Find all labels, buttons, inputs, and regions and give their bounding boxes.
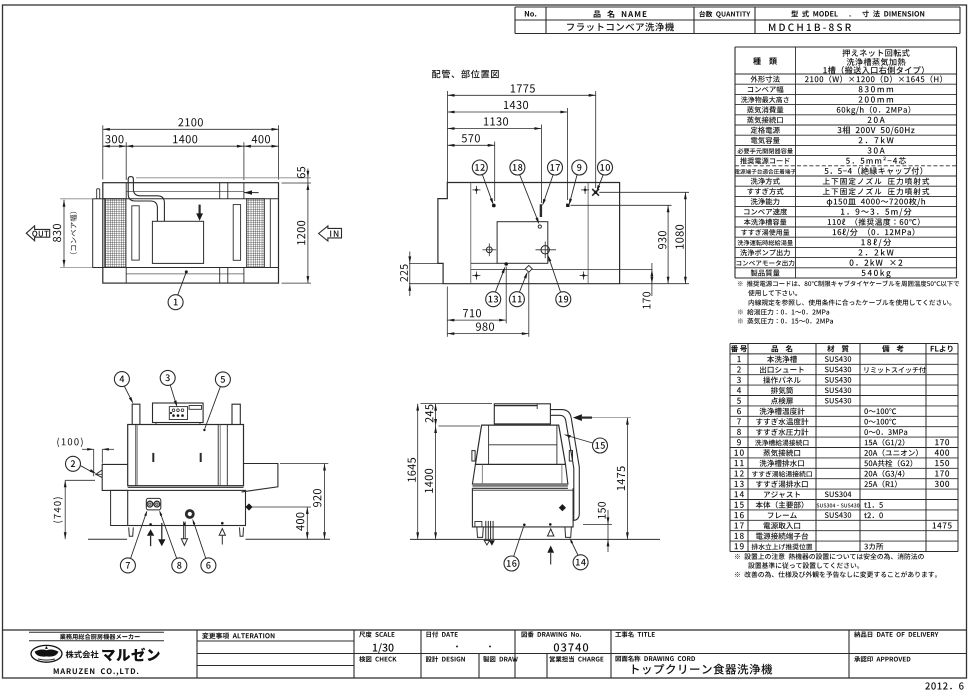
title cell bbox=[615, 631, 654, 637]
side supply arrow filled up bbox=[547, 546, 554, 553]
front exhaust stack right bbox=[232, 404, 240, 424]
side handle tabs bbox=[472, 451, 475, 461]
plan view exit chute strip bbox=[93, 199, 105, 268]
side steam pipe bbox=[550, 410, 579, 521]
plan view conveyor bottom edge bbox=[103, 267, 279, 269]
spec row コンベア幅 bbox=[748, 86, 784, 93]
circle label 7 bbox=[120, 558, 135, 573]
plan view down arrow into tank bbox=[199, 205, 201, 214]
spec row 洗浄能力 bbox=[751, 198, 780, 205]
dimension 65 and 1200 extension lines bbox=[136, 177, 311, 179]
spec row 本洗浄槽容量 bbox=[744, 219, 787, 226]
front lower body left extension bbox=[111, 490, 128, 525]
plan view drive box in top band bbox=[219, 183, 221, 199]
piping diagram title bbox=[432, 70, 499, 79]
parts row 11 洗浄槽排水口 bbox=[735, 460, 744, 466]
spec notes bbox=[738, 280, 959, 286]
dimension 65 bbox=[307, 169, 309, 284]
plan view left slot opening bbox=[132, 206, 139, 260]
side small outlet box bbox=[475, 522, 482, 527]
side leg right bbox=[565, 527, 572, 538]
product name cell bbox=[567, 22, 674, 31]
front utility dots bbox=[149, 523, 152, 526]
piping conveyor left inner line bbox=[470, 183, 472, 284]
dimension 1400 bbox=[434, 426, 437, 433]
front lower body bbox=[128, 490, 246, 525]
circle label 19 bbox=[556, 292, 571, 307]
front door handle right bbox=[200, 453, 202, 462]
parts row 8 すすぎ水圧力計 bbox=[737, 429, 741, 435]
front exit chute wedge bbox=[96, 470, 102, 478]
dimension 300 1400 400 bbox=[125, 142, 127, 180]
circle label 8 bbox=[172, 558, 187, 573]
company name maruzen logotype bbox=[102, 648, 160, 662]
circle label 18 bbox=[510, 160, 525, 175]
front power entry diamond bbox=[245, 503, 252, 510]
spec row 洗浄運転時総給湯量 bbox=[738, 240, 793, 246]
spec row 推奨電源コード bbox=[740, 157, 789, 164]
parts row 9 洗浄槽給湯接続口 bbox=[737, 439, 741, 445]
spec row 製品質量 bbox=[751, 269, 780, 276]
plan view chute notch bbox=[99, 189, 101, 199]
header label MODEL DIMENSION bbox=[791, 10, 924, 17]
front lower body bottom line bbox=[111, 525, 246, 527]
spec row 蒸気消費量 bbox=[747, 106, 783, 113]
connection 19 riser circle-cross bbox=[541, 246, 549, 254]
date 2012.6 bbox=[925, 682, 963, 689]
scale cell bbox=[359, 631, 394, 637]
parts row 17 電源取入口 bbox=[735, 522, 744, 528]
parts row 1 本洗浄槽 bbox=[737, 356, 740, 362]
front left table bbox=[102, 464, 128, 490]
plan view wash tank box bbox=[152, 221, 203, 263]
spec row 洗浄物最大高さ bbox=[741, 96, 789, 103]
side exhaust top box bbox=[494, 404, 550, 424]
plan view right end block lines bbox=[243, 183, 245, 199]
spec row 電源端子台適合圧着端子 bbox=[735, 169, 796, 174]
parts row 10 蒸気接続口 bbox=[735, 450, 744, 456]
adjuster cross top left bbox=[472, 189, 480, 191]
charge cell bbox=[550, 656, 604, 662]
piping tank rectangle bbox=[497, 222, 548, 264]
piping tank bottom left line bbox=[471, 262, 497, 264]
parts row 2 出口シュート bbox=[737, 366, 741, 372]
dimension 830 extension lines bbox=[60, 198, 92, 200]
header label No. bbox=[525, 11, 537, 17]
circle label 16 bbox=[504, 556, 519, 571]
parts table header bbox=[731, 345, 747, 352]
plan view conveyor direction arrow bbox=[244, 192, 259, 194]
spec row 電気容量 bbox=[751, 137, 780, 144]
title block grid bbox=[3, 629, 967, 631]
front steam supply arrow outline up bbox=[219, 529, 225, 536]
side lower body bbox=[472, 488, 573, 527]
plan view bottom rail inner line bbox=[126, 273, 244, 275]
model number cell bbox=[769, 24, 851, 32]
side steam inlet arrow bbox=[573, 414, 582, 421]
dimension 1080 bbox=[599, 191, 689, 193]
dimension 1430 bbox=[566, 108, 568, 200]
connection 12 hot water inlet dot bbox=[492, 204, 496, 208]
dimension 830 bbox=[63, 200, 65, 267]
check cell bbox=[359, 656, 396, 662]
connection 18 terminal block circle bbox=[538, 225, 541, 228]
front hood right seams bbox=[217, 425, 219, 486]
side floor line bbox=[410, 538, 660, 540]
dimension 930 bbox=[571, 204, 672, 206]
piping conveyor right inner line bbox=[587, 183, 589, 284]
header label QUANTITY bbox=[699, 11, 750, 18]
connection 9 rinse water inlet square bbox=[566, 204, 569, 207]
header table grid bbox=[515, 6, 960, 8]
drawing no cell bbox=[521, 631, 581, 637]
plan view left end block lines bbox=[125, 183, 127, 199]
front control panel keypad bbox=[169, 407, 187, 420]
dimension (100) bbox=[57, 438, 82, 448]
connection 13 rinse drain dot bbox=[504, 262, 508, 266]
plan view right mesh conveyor hatch bbox=[247, 199, 265, 268]
front exhaust stack left bbox=[132, 404, 140, 424]
parts row 14 アジャスト bbox=[735, 491, 744, 497]
circle label 4 bbox=[114, 372, 129, 387]
maruzen logo emblem bbox=[31, 645, 62, 662]
spec row 外形寸法 bbox=[751, 76, 780, 83]
circle label 6 bbox=[201, 558, 216, 573]
spec row 必要手元開閉器容量 bbox=[737, 148, 792, 154]
spec row 洗浄ポンプ出力 bbox=[740, 249, 790, 256]
design cell bbox=[426, 656, 465, 662]
circle label 10 bbox=[598, 160, 613, 175]
dimension 710 bbox=[446, 287, 448, 337]
front control panel bbox=[153, 403, 204, 423]
parts table grid bbox=[730, 343, 958, 345]
side rinse arrow outline up bbox=[548, 529, 554, 536]
dimension 980 bbox=[528, 272, 530, 337]
dimension 1475 bbox=[626, 418, 628, 540]
circle label 1 bbox=[168, 295, 183, 310]
alteration cell bbox=[202, 633, 274, 639]
front thermometer gauges box bbox=[146, 498, 161, 510]
side power entry diamond bbox=[559, 504, 566, 511]
front upper body hood bbox=[128, 425, 244, 486]
spec row コンベアモータ出力 bbox=[737, 260, 795, 266]
parts row 13 すすぎ湯排水口 bbox=[735, 481, 744, 487]
adjuster cross top right bbox=[581, 189, 589, 191]
side hood middle band bbox=[472, 464, 568, 484]
circle label 9 bbox=[572, 160, 587, 175]
draw cell bbox=[483, 656, 518, 662]
circle label 14 bbox=[573, 555, 588, 570]
front right table bbox=[242, 464, 278, 492]
side dot above arrow bbox=[549, 523, 552, 526]
dimension 170 bbox=[651, 263, 653, 296]
delivery cell bbox=[854, 631, 938, 637]
circle label 11 bbox=[509, 292, 524, 307]
dimension 245 bbox=[439, 425, 481, 427]
company name kabushiki bbox=[66, 650, 99, 658]
dimension 1200 bbox=[307, 276, 310, 283]
parts row 15 本体（主要部） bbox=[735, 502, 744, 508]
front hood bottom double line bbox=[128, 485, 244, 487]
front control panel display bbox=[189, 406, 201, 410]
parts row 4 排気筒 bbox=[737, 387, 741, 393]
front leg right bbox=[240, 527, 244, 536]
maker slogan bbox=[29, 631, 164, 633]
plan view body outline bbox=[103, 183, 279, 283]
second row dividers bbox=[478, 654, 480, 679]
dimension 570 bbox=[494, 142, 496, 202]
front rinse drain arrow outline down bbox=[183, 522, 185, 539]
spec row 洗浄方式 bbox=[751, 178, 780, 185]
side hood inner panel bbox=[489, 444, 557, 446]
tank drain circle-cross left bbox=[486, 247, 492, 253]
spec row 蒸気接続口 bbox=[747, 116, 783, 123]
spec row コンベア速度 bbox=[744, 208, 787, 215]
dimension 1775 bbox=[447, 91, 449, 183]
piping conveyor bottom line bbox=[471, 268, 653, 270]
front door handle left bbox=[152, 453, 154, 462]
dimension 150 bbox=[583, 523, 612, 525]
spec row すすぎ方式 bbox=[747, 188, 783, 195]
dimension conveyor width note bbox=[70, 212, 77, 254]
adjuster cross bottom right bbox=[580, 275, 588, 277]
front hood left seam bbox=[135, 425, 137, 486]
plan view top rail inner line bbox=[126, 191, 244, 193]
circle label 12 bbox=[472, 160, 487, 175]
connection 11 wash drain diamond bbox=[525, 265, 532, 272]
drawing name cell bbox=[615, 656, 695, 662]
circle label 2 bbox=[66, 456, 81, 471]
parts row 3 操作パネル bbox=[737, 377, 741, 383]
plan view right slot opening bbox=[233, 205, 240, 261]
side drain pipes left bbox=[485, 521, 487, 540]
plan view right block inner line bbox=[269, 199, 271, 268]
circle label 13 bbox=[486, 292, 501, 307]
date cell bbox=[426, 631, 457, 637]
front drain valve bbox=[186, 511, 193, 518]
parts row 12 すすぎ湯給湯接続口 bbox=[735, 470, 744, 476]
parts row 18 電源接続端子台 bbox=[735, 533, 744, 539]
spec row 種類 bbox=[753, 57, 777, 64]
circle label 17 bbox=[548, 160, 563, 175]
spec row 定格電源 bbox=[751, 127, 780, 134]
piping outline bottom extension line bbox=[620, 283, 689, 285]
spec table grid bbox=[735, 46, 957, 48]
front drain arrow filled down bbox=[161, 523, 163, 539]
parts row 5 点検扉 bbox=[737, 398, 741, 404]
parts row 16 フレーム bbox=[735, 512, 744, 518]
side leg left bbox=[477, 527, 484, 538]
dimension 400 bbox=[253, 506, 312, 508]
front leg left bbox=[129, 527, 134, 536]
dimension (740) bbox=[65, 479, 95, 481]
connection 17 power entry bold mark bbox=[540, 204, 542, 217]
OUT direction arrow bbox=[26, 226, 49, 241]
circle label 3 bbox=[160, 370, 175, 385]
dimension 920 bbox=[280, 463, 328, 465]
circle label 5 bbox=[215, 372, 230, 387]
front hot water supply arrow filled up bbox=[147, 529, 154, 536]
approved cell bbox=[854, 656, 910, 662]
adjuster cross bottom left bbox=[472, 275, 480, 277]
parts row 6 洗浄槽温度計 bbox=[737, 408, 741, 414]
dimension 1130 bbox=[540, 125, 542, 204]
side base double band bbox=[472, 485, 568, 487]
parts row 19 排水立上げ推奨位置 bbox=[735, 543, 744, 549]
plan view conveyor top edge bbox=[103, 198, 279, 200]
company name english bbox=[54, 668, 139, 675]
front floor line bbox=[88, 538, 127, 540]
plan view left mesh conveyor hatch bbox=[105, 199, 126, 268]
connection 10 steam inlet cross bbox=[592, 189, 599, 196]
dimension 1645 bbox=[421, 403, 493, 405]
spec row すすぎ湯使用量 bbox=[741, 229, 789, 236]
parts row 7 すすぎ水温度計 bbox=[737, 418, 741, 424]
header label NAME bbox=[594, 10, 647, 18]
piping outline polygon bbox=[438, 183, 620, 284]
plan view steam pipe elbow bbox=[128, 177, 133, 180]
front control panel base bbox=[156, 423, 200, 425]
side hood trapezoid bbox=[475, 425, 565, 464]
dimension 225 bbox=[409, 262, 438, 264]
circle label 15 bbox=[593, 438, 608, 453]
parts notes bbox=[735, 553, 924, 559]
IN direction arrow bbox=[319, 226, 342, 241]
dimension 2100 bbox=[102, 125, 104, 179]
